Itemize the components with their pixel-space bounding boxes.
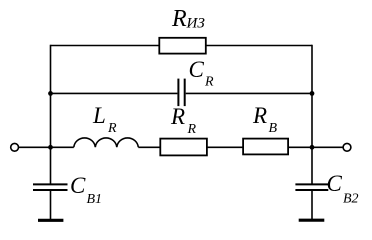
svg-text:R: R [204, 75, 214, 90]
svg-text:R: R [252, 103, 267, 128]
wire RB to right node [288, 146, 312, 148]
wire CB2 to ground [311, 191, 313, 219]
svg-text:В1: В1 [87, 192, 103, 207]
label CB1 [70, 173, 102, 207]
label CB2 [327, 171, 359, 207]
wire top rail left segment [51, 45, 160, 47]
wire left node to inductor [51, 146, 74, 148]
label RИЗ [171, 6, 205, 32]
wire top rail right segment [206, 45, 312, 47]
wire left riser [50, 45, 52, 184]
svg-text:C: C [70, 173, 86, 198]
label RR [170, 104, 197, 137]
resistor RИЗ [159, 38, 206, 54]
resistor RB [243, 139, 288, 155]
wire input to left node [19, 146, 51, 148]
resistor RR [160, 139, 207, 156]
svg-text:B: B [269, 121, 278, 136]
svg-text:R: R [171, 6, 187, 32]
wire CR rail right segment [186, 92, 312, 94]
wire right riser [311, 45, 313, 184]
node junction left main rail [48, 145, 53, 150]
wire CB1 to ground [50, 191, 52, 219]
svg-text:R: R [187, 122, 197, 137]
ground left [38, 219, 63, 222]
label CR [189, 57, 215, 90]
wire CR rail left segment [51, 92, 178, 94]
node junction left CR rail [48, 91, 53, 96]
terminal input [11, 143, 19, 151]
svg-text:L: L [92, 103, 106, 128]
ground right [299, 219, 325, 222]
svg-text:C: C [189, 57, 205, 82]
wire RR to RB [207, 146, 243, 148]
svg-text:R: R [107, 121, 117, 136]
svg-text:R: R [170, 104, 185, 129]
wire inductor to RR [138, 146, 160, 148]
capacitor CB1 [33, 184, 68, 190]
svg-text:ИЗ: ИЗ [186, 16, 206, 32]
terminal output [343, 143, 351, 151]
capacitor CR [178, 79, 184, 107]
node junction right CR rail [310, 91, 315, 96]
svg-text:В2: В2 [343, 192, 359, 207]
wire right node to output [312, 146, 343, 148]
capacitor CB2 [295, 184, 328, 190]
label LR [92, 103, 117, 136]
label RB [252, 103, 278, 136]
svg-text:C: C [327, 171, 343, 196]
inductor LR [74, 138, 139, 147]
node junction right main rail [310, 145, 315, 150]
